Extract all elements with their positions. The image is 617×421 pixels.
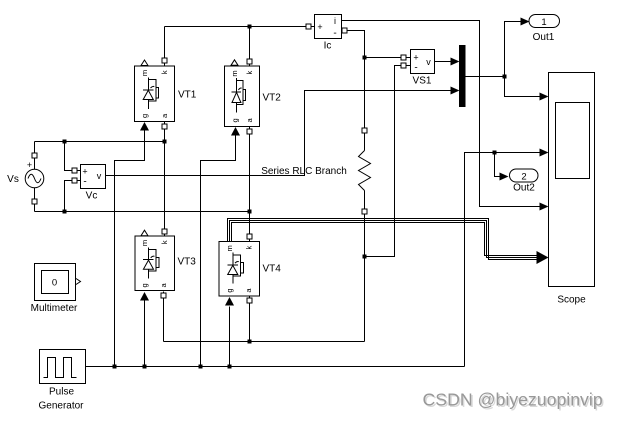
outport Out2 — [510, 169, 539, 183]
svg-text:k: k — [245, 70, 254, 74]
svg-text:g: g — [225, 289, 234, 293]
svg-text:g: g — [140, 283, 149, 287]
svg-text:0: 0 — [52, 278, 57, 289]
svg-text:Ic: Ic — [324, 41, 332, 52]
scope block — [549, 73, 595, 287]
thyristor VT2 — [225, 66, 260, 127]
junction (164,141) — [163, 140, 167, 144]
port marker (344,30) — [342, 28, 347, 33]
svg-text:+: + — [413, 53, 418, 63]
svg-text:m: m — [225, 245, 234, 251]
port marker (364,130) — [362, 128, 367, 133]
unconnected m port VT2 — [231, 60, 238, 66]
arrow into mux input 2 — [451, 87, 460, 95]
svg-text:Series RLC Branch: Series RLC Branch — [261, 166, 347, 177]
wire top rail Vs to VT1 anode node — [35, 141, 165, 143]
port marker (74,170) — [72, 168, 77, 173]
wire VT1 anode to VT3 cathode — [164, 122, 166, 237]
svg-text:VT4: VT4 — [263, 264, 282, 275]
resistor R zigzag (Series RLC Branch) — [359, 151, 371, 191]
multimeter unconnected output port — [76, 279, 81, 285]
wire anode bus VT3/VT4 to load return — [164, 341, 365, 343]
svg-text:1: 1 — [541, 17, 546, 28]
label Pulse Generator — [38, 387, 84, 412]
wire VT4 anode down — [249, 297, 251, 342]
port marker (403,57) — [401, 55, 406, 60]
port marker (34,201) — [32, 199, 37, 204]
arrow scope input 4 (wide line) — [537, 251, 549, 264]
junction (504,76) — [503, 75, 507, 79]
svg-text:v: v — [97, 171, 102, 181]
gate arrow VT1 — [140, 122, 149, 131]
wire Vs top lead to top rail — [34, 142, 36, 170]
wire pulse generator output bus — [86, 366, 465, 368]
port marker (164,126) — [162, 124, 167, 129]
port marker (163,295) — [161, 293, 166, 298]
wire pulse bus riser to scope input 2 — [465, 153, 540, 367]
port marker (164,60) — [162, 58, 167, 63]
svg-text:m: m — [140, 240, 149, 246]
wire Vs bottom lead — [34, 188, 36, 212]
junction (64,211) — [63, 210, 67, 214]
junction (249,26) — [248, 25, 252, 29]
svg-text:k: k — [160, 70, 169, 74]
wire VT1 cathode to top node — [164, 27, 166, 67]
wire mux output — [466, 76, 505, 78]
wide measurement line VT4 m to scope input 4 — [228, 219, 540, 260]
junction (364,256) — [363, 255, 367, 259]
wire mux output to Out1 — [505, 22, 521, 77]
arrow scope input 3 — [540, 203, 549, 211]
junction (229,366) — [228, 365, 232, 369]
svg-text:Out2: Out2 — [513, 183, 535, 194]
svg-text:Scope: Scope — [557, 295, 586, 306]
svg-text:Vc: Vc — [86, 191, 98, 202]
wire gate VT2 — [201, 136, 236, 367]
svg-text:-: - — [414, 63, 417, 74]
svg-text:-: - — [83, 177, 86, 188]
port marker (249,61) — [247, 59, 252, 64]
wire Vc output to mux input 2 — [106, 91, 451, 176]
svg-text:-: - — [333, 28, 336, 39]
arrow into Out2 — [500, 173, 509, 181]
thyristor VT1 — [135, 66, 175, 121]
outport Out1 — [529, 15, 560, 29]
unconnected m port VT3 — [141, 230, 148, 236]
thyristor VT4 — [219, 242, 259, 296]
wire resistor bottom to anode bus — [364, 191, 366, 342]
svg-text:CSDN @biyezuopinvip: CSDN @biyezuopinvip — [423, 390, 603, 410]
wire gate VT4 — [229, 307, 231, 367]
port marker (34,155) — [32, 153, 37, 158]
svg-text:v: v — [426, 57, 431, 67]
wire Vc minus input — [65, 181, 81, 212]
thyristor VT3 — [135, 236, 175, 291]
wire bottom rail Vs to VT2 anode node — [35, 211, 250, 213]
wire VT2 cathode to top node — [249, 27, 251, 67]
gate arrow VT4 — [225, 297, 234, 306]
current measurement Ic — [315, 15, 342, 39]
port marker (364,211) — [362, 209, 367, 214]
wire gate VT3 — [144, 301, 146, 367]
wire VT3 anode down — [163, 292, 165, 342]
unconnected m port VT1 — [141, 60, 148, 66]
port marker (308,26) — [306, 24, 311, 29]
arrow into Out1 — [521, 18, 530, 26]
wire top node to Ic input — [165, 26, 315, 28]
svg-text:m: m — [140, 70, 149, 76]
arrow scope input 1 — [540, 93, 549, 101]
junction (200,366) — [199, 365, 203, 369]
svg-text:+: + — [27, 160, 32, 170]
arrow scope input 2 — [540, 149, 549, 157]
wire mux output to scope input 1 — [505, 77, 540, 97]
svg-text:2: 2 — [521, 172, 526, 183]
watermark CSDN — [423, 390, 605, 412]
wire Vc plus input — [65, 142, 81, 171]
junction (249,211) — [248, 210, 252, 214]
svg-text:Generator: Generator — [38, 401, 84, 412]
svg-text:+: + — [82, 167, 87, 177]
svg-text:Out1: Out1 — [533, 32, 555, 43]
svg-text:+: + — [317, 22, 322, 32]
port marker (74,180) — [72, 178, 77, 183]
svg-text:VT1: VT1 — [178, 90, 197, 101]
junction (494,152) — [493, 151, 497, 155]
junction (249,341) — [248, 340, 252, 344]
multimeter block — [35, 264, 76, 301]
port marker (249,131) — [247, 129, 252, 134]
wire VT2 anode to VT4 cathode — [249, 127, 251, 242]
wire Ic minus output to load — [342, 31, 365, 151]
wire VS1 output to mux input 1 — [435, 61, 451, 63]
wire Ic i output to scope input 3 — [342, 21, 540, 207]
wire VS1 plus input — [365, 57, 411, 59]
svg-text:Multimeter: Multimeter — [31, 303, 78, 314]
port marker (249,236) — [247, 234, 252, 239]
pulse generator block — [40, 350, 86, 384]
svg-text:Pulse: Pulse — [49, 387, 74, 398]
junction (114,366) — [113, 365, 117, 369]
port marker (164,231) — [162, 229, 167, 234]
port marker (249,300) — [247, 298, 252, 303]
gate arrow VT3 — [140, 292, 149, 301]
mux MUX1 — [459, 45, 466, 107]
arrow into mux input 1 — [451, 58, 460, 66]
svg-text:i: i — [334, 16, 336, 26]
port marker (403,65) — [401, 63, 406, 68]
svg-text:k: k — [245, 245, 254, 249]
svg-text:m: m — [230, 70, 239, 76]
svg-text:g: g — [230, 118, 239, 122]
svg-text:g: g — [140, 114, 149, 118]
svg-text:Vs: Vs — [7, 174, 19, 185]
junction (144,366) — [143, 365, 147, 369]
junction (364,57) — [363, 56, 367, 60]
junction (64,141) — [63, 140, 67, 144]
wire VS1 minus input — [365, 66, 411, 257]
wire pulse branch to Out2 — [495, 153, 501, 177]
svg-text:VT2: VT2 — [263, 93, 282, 104]
voltage measurement VS1 — [411, 50, 435, 74]
svg-text:VT3: VT3 — [178, 257, 197, 268]
svg-text:VS1: VS1 — [413, 76, 432, 87]
gate arrow VT2 — [231, 127, 240, 136]
wire gate VT1 — [115, 131, 145, 367]
AC voltage source Vs — [25, 160, 44, 188]
voltage measurement Vc — [81, 165, 106, 189]
svg-text:k: k — [160, 240, 169, 244]
